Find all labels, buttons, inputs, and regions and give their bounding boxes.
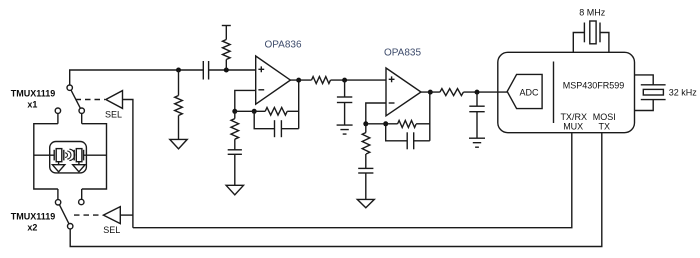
node C2 top bbox=[342, 78, 347, 83]
transducer XT2 plates bbox=[73, 150, 75, 161]
svg-text:TX: TX bbox=[599, 122, 611, 132]
crystal Y2 32kHz leads bbox=[635, 75, 654, 85]
op-amp U2 OPA836 bbox=[256, 56, 291, 104]
svg-text:32 kHz: 32 kHz bbox=[669, 88, 698, 98]
wire TX net bbox=[70, 133, 602, 247]
TMUX1119 x1 switch pole circle bbox=[67, 85, 72, 90]
SEL buffer U1 triangle bbox=[106, 91, 123, 109]
wire node to Rg835 bbox=[365, 124, 367, 133]
capacitor C1 series bbox=[202, 61, 204, 80]
transducer box outer right edge bbox=[82, 124, 107, 189]
transducer box outer left edge bbox=[34, 124, 58, 189]
TMUX1119 x2 switch circle right bbox=[79, 199, 84, 204]
transducer box pins bottom bbox=[57, 189, 59, 200]
transducer XT2 down arrow bbox=[78, 162, 80, 165]
resistor R2 bbox=[223, 40, 231, 60]
wire Rg835 to Cg835 bbox=[365, 154, 367, 168]
node Rf836 left bbox=[252, 109, 257, 114]
resistor R3 bbox=[312, 77, 331, 84]
wire Rf836 right bbox=[287, 110, 299, 112]
op-amp U2 plus sign bbox=[258, 66, 264, 72]
supply T-bar bbox=[222, 25, 231, 27]
node inverting 836 bbox=[232, 109, 237, 114]
wire node to C3 bbox=[476, 92, 478, 106]
ground G3 three-line bbox=[337, 125, 353, 134]
transducer leads bbox=[34, 154, 54, 156]
wire SEL1 input to vertical net bbox=[123, 100, 133, 228]
wire R3 to OPA835 plus bbox=[331, 79, 387, 81]
wire Cf835 left branch bbox=[386, 124, 408, 141]
resistor Rf835 bbox=[398, 121, 417, 128]
svg-text:MUX: MUX bbox=[563, 122, 583, 132]
node R2 bottom bbox=[224, 68, 229, 73]
node Rf835 left bbox=[383, 121, 388, 126]
MSP430FR599 block U4 bbox=[498, 52, 635, 132]
wire Cf836 left branch bbox=[254, 111, 274, 128]
resistor Rf836 bbox=[265, 108, 287, 116]
wire feedback vertical bbox=[298, 80, 300, 129]
wire op-amp output bbox=[290, 79, 311, 81]
wire Cf835 right bbox=[414, 140, 430, 142]
wire main input top bbox=[70, 70, 204, 85]
capacitor C2 bbox=[337, 96, 352, 98]
transducer box pins top bbox=[57, 113, 59, 123]
ADC pentagon bbox=[507, 74, 542, 108]
SEL buffer U5 triangle bbox=[103, 207, 120, 224]
svg-text:OPA835: OPA835 bbox=[384, 48, 421, 59]
wire T-bar to R2 bbox=[225, 26, 227, 40]
transducer XT1 body bbox=[56, 149, 62, 162]
resistor Rg835 bbox=[362, 133, 370, 155]
crystal Y1 plates bbox=[583, 23, 585, 43]
wire inverting input loop bbox=[235, 90, 256, 111]
dashed control line x1 bbox=[76, 99, 105, 101]
wire R2 to node bbox=[225, 60, 227, 71]
node inverting 835 bbox=[363, 121, 368, 126]
wire node to node bbox=[235, 110, 265, 112]
ground G5 three-line bbox=[469, 138, 485, 147]
capacitor C3 bbox=[469, 105, 484, 107]
wire C3 to ground bbox=[476, 112, 478, 139]
wire SEL2 input bbox=[120, 214, 133, 216]
wire R1 to ground bbox=[178, 116, 180, 140]
ground G2 bbox=[226, 185, 243, 195]
node R1 top bbox=[176, 68, 181, 73]
TMUX1119 x1 switch throw circle left bbox=[55, 108, 60, 113]
capacitor Cf835 bbox=[406, 132, 408, 149]
wire node to R1 bbox=[178, 70, 180, 96]
transducer XT1 down arrow bbox=[58, 162, 60, 165]
transducer inner rounded box bbox=[50, 142, 87, 173]
wire Rf835 right bbox=[416, 123, 430, 125]
resistor R1 bbox=[175, 96, 183, 116]
svg-text:ADC: ADC bbox=[519, 87, 539, 97]
svg-text:x2: x2 bbox=[27, 223, 37, 233]
svg-text:SEL: SEL bbox=[105, 110, 122, 120]
wire inverting input loop 835 bbox=[366, 103, 386, 124]
op-amp U3 plus sign bbox=[389, 76, 395, 82]
crystal Y2 body bbox=[643, 89, 663, 95]
wire feedback vertical 835 bbox=[429, 92, 431, 141]
sound waves bbox=[65, 149, 75, 160]
op-amp U3 minus sign bbox=[389, 102, 395, 104]
separator line bbox=[553, 62, 555, 124]
svg-text:TMUX1119: TMUX1119 bbox=[11, 212, 56, 222]
TMUX1119 x2 switch arm bbox=[59, 205, 69, 224]
resistor Rg836 bbox=[231, 119, 239, 140]
wire op-amp 835 output bbox=[421, 91, 440, 93]
op-amp U3 OPA835 bbox=[386, 68, 421, 116]
svg-text:OPA836: OPA836 bbox=[264, 40, 301, 51]
svg-text:8 MHz: 8 MHz bbox=[579, 7, 606, 17]
transducer XT1 plates bbox=[53, 150, 55, 161]
ground G1 bbox=[170, 139, 187, 149]
wire node to Rg836 bbox=[234, 111, 236, 118]
ground G4 bbox=[357, 199, 374, 207]
TMUX1119 x1 switch arm bbox=[71, 90, 80, 108]
crystal Y2 plates bbox=[641, 84, 666, 86]
svg-text:SEL: SEL bbox=[103, 225, 120, 235]
wire Rg836 to Cg836 bbox=[234, 139, 236, 150]
svg-text:MOSI: MOSI bbox=[593, 112, 616, 122]
transducer XT2 body bbox=[76, 149, 82, 162]
svg-text:TMUX1119: TMUX1119 bbox=[11, 89, 56, 99]
TMUX1119 x1 switch throw circle right bbox=[79, 108, 84, 113]
TMUX1119 x2 switch pole circle left bbox=[55, 200, 60, 205]
crystal Y1 body bbox=[590, 21, 596, 44]
svg-text:TX/RX: TX/RX bbox=[560, 112, 587, 122]
capacitor Cf836 bbox=[274, 120, 276, 137]
wire Cf836 right bbox=[281, 128, 298, 130]
wire Cg835 to ground bbox=[365, 173, 367, 199]
wire cap to op-amp plus input bbox=[209, 69, 256, 71]
node output 835 bbox=[428, 90, 433, 95]
resistor R4 bbox=[440, 89, 464, 96]
wire Cg836 to ground bbox=[234, 154, 236, 185]
wire C2 to ground bbox=[344, 103, 346, 126]
wire node to Rf835 bbox=[366, 123, 398, 125]
node output 836 bbox=[296, 78, 301, 83]
svg-text:x1: x1 bbox=[27, 100, 37, 110]
capacitor Cg835 bbox=[358, 167, 373, 169]
dashed control line x2 bbox=[74, 214, 102, 216]
capacitor Cg836 bbox=[228, 149, 242, 151]
crystal Y1 8MHz leads bbox=[573, 33, 584, 53]
TMUX1119 x2 switch bottom circle bbox=[68, 224, 73, 229]
op-amp U2 minus sign bbox=[258, 89, 264, 91]
wire R4 to MSP bbox=[463, 91, 507, 93]
wire MUX net bbox=[133, 133, 572, 228]
svg-text:MSP430FR599: MSP430FR599 bbox=[563, 81, 625, 91]
node C3 top bbox=[475, 90, 480, 95]
wire node to C2 bbox=[344, 80, 346, 97]
